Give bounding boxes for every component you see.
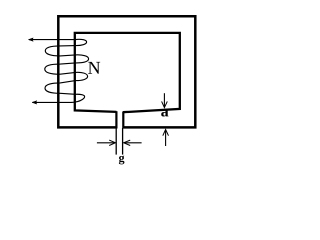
wire top lead [29, 39, 77, 41]
coil winding [45, 39, 89, 102]
gap right extension line [122, 128, 124, 155]
dimension a lower arrow [165, 130, 167, 146]
gap right face [122, 112, 124, 129]
wire bottom lead [33, 101, 72, 103]
core outer outline [58, 16, 195, 127]
label a [161, 109, 168, 117]
dimension g right arrow [124, 142, 142, 144]
top lead arrowhead [28, 38, 33, 41]
label N [88, 62, 100, 74]
dimension g left arrow [97, 142, 115, 144]
bottom lead arrowhead [32, 101, 37, 104]
dimension a upper arrow [163, 93, 165, 107]
gap left face [115, 111, 117, 128]
gap left extension line [115, 128, 117, 155]
core inner outline [75, 33, 180, 112]
label g [119, 156, 125, 165]
